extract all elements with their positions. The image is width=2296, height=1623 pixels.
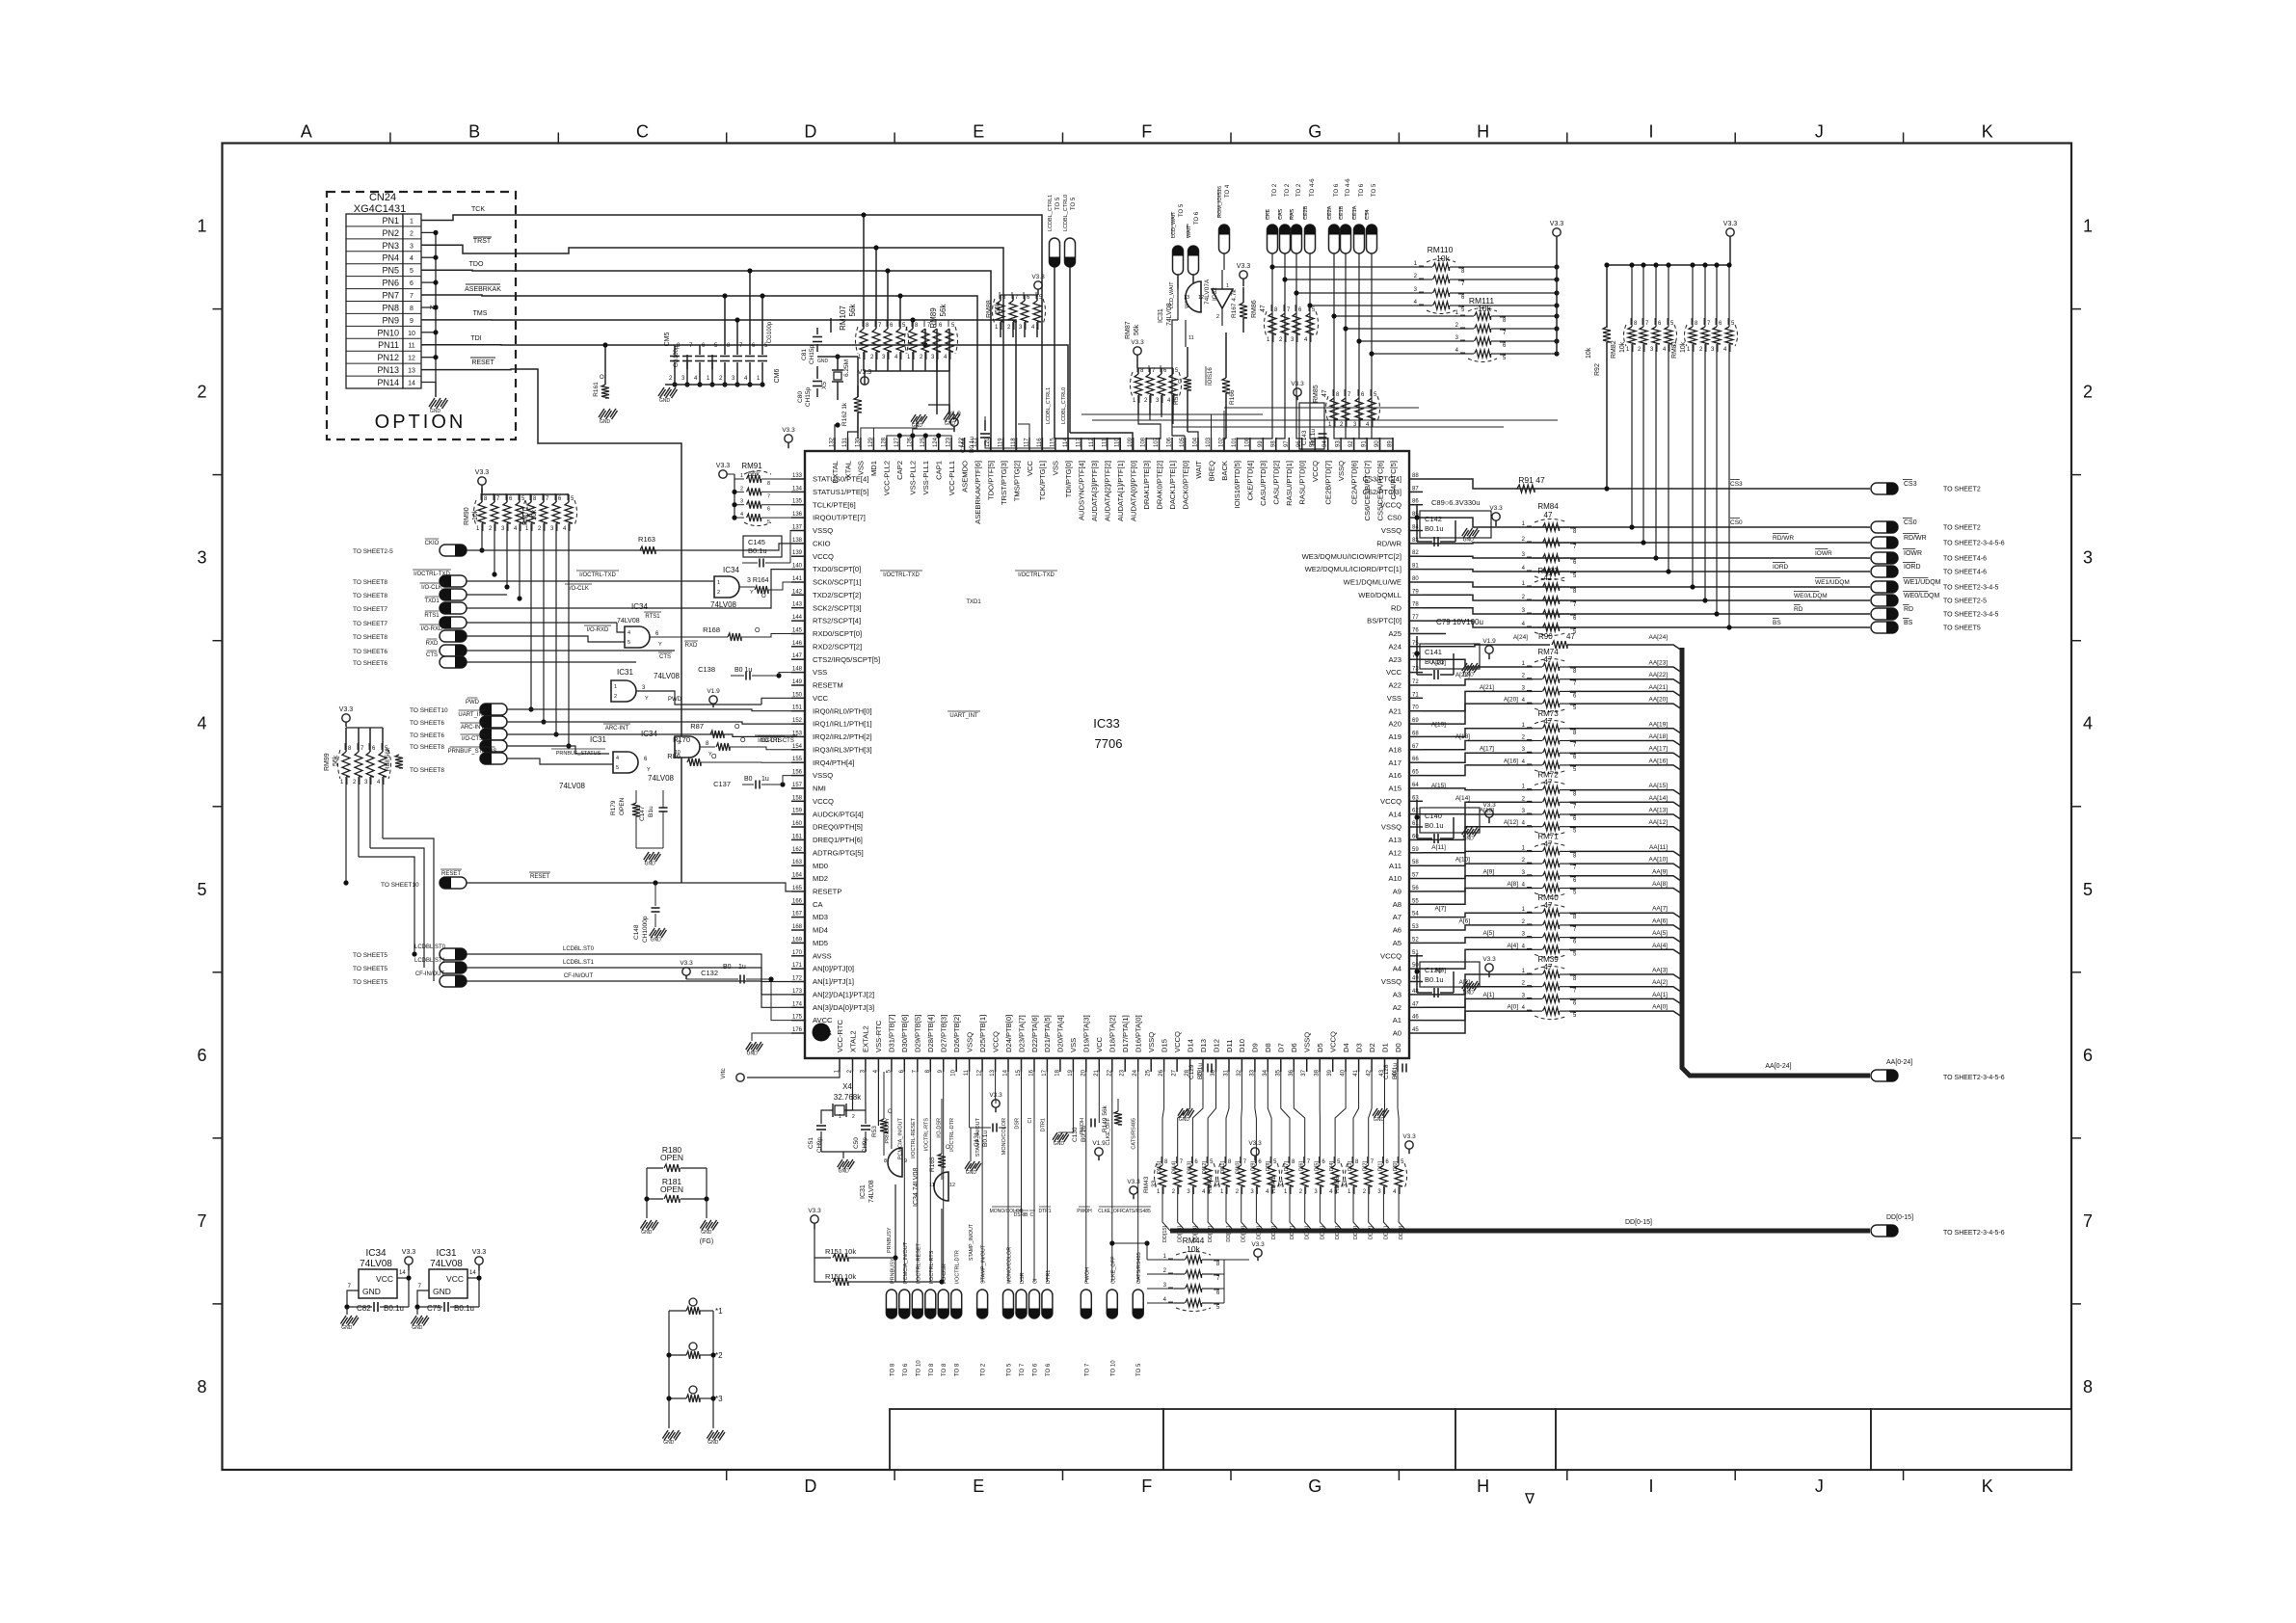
- svg-text:A11: A11: [1389, 862, 1402, 870]
- wire A9 to AA[9]: [1423, 876, 1533, 891]
- svg-text:Y: Y: [750, 590, 754, 596]
- svg-text:B0.1u: B0.1u: [1081, 1126, 1087, 1142]
- svg-text:5: 5: [410, 268, 414, 275]
- svg-text:AA[4]: AA[4]: [1652, 943, 1668, 949]
- svg-text:O: O: [755, 627, 761, 634]
- svg-text:151: 151: [792, 705, 803, 711]
- svg-text:LCDBL_CTRL1: LCDBL_CTRL1: [1048, 195, 1054, 231]
- wire to C144: [985, 445, 1055, 451]
- svg-text:V3.3: V3.3: [1248, 1140, 1262, 1147]
- svg-text:AVSS: AVSS: [813, 951, 832, 960]
- wire A7 to AA[7]: [1423, 913, 1533, 917]
- svg-text:C79 10V100u: C79 10V100u: [1436, 618, 1483, 626]
- terminal RD/WR: [1871, 537, 1898, 548]
- svg-text:74LV08: 74LV08: [617, 618, 640, 625]
- wire D1 to DD[1]: [1383, 1072, 1384, 1165]
- svg-text:63: 63: [1412, 795, 1419, 801]
- svg-text:PRNBUSY: PRNBUSY: [885, 1118, 891, 1144]
- labels WAIT BREQ BACK wires: [1211, 414, 1213, 451]
- svg-text:PRNBUSY: PRNBUSY: [887, 1227, 893, 1253]
- wire TCK from CN24: [421, 215, 1042, 451]
- svg-text:AUDATA[3]/PTF[3]: AUDATA[3]/PTF[3]: [1090, 461, 1099, 521]
- svg-text:D18/PTA[2]: D18/PTA[2]: [1108, 1015, 1117, 1052]
- svg-text:I/O-CLK: I/O-CLK: [568, 586, 589, 592]
- svg-text:152: 152: [792, 718, 803, 724]
- svg-text:IORD: IORD: [1773, 564, 1789, 571]
- terminal CE1A TO 6: [1354, 225, 1365, 253]
- svg-text:B0.1u: B0.1u: [1425, 524, 1444, 533]
- svg-text:47: 47: [1544, 511, 1553, 519]
- wire A8 to AA[8]: [1423, 889, 1533, 905]
- svg-text:138: 138: [792, 538, 803, 544]
- svg-text:A9: A9: [1393, 888, 1402, 896]
- svg-text:CG100p: CG100p: [767, 321, 773, 343]
- svg-text:D0: D0: [1394, 1043, 1402, 1052]
- svg-text:PN11: PN11: [378, 340, 399, 350]
- svg-text:TO SHEET8: TO SHEET8: [353, 634, 387, 641]
- svg-text:CATS/RS485: CATS/RS485: [1132, 1118, 1137, 1150]
- svg-text:AA[17]: AA[17]: [1648, 746, 1668, 753]
- svg-text:H: H: [1477, 122, 1489, 142]
- svg-text:59: 59: [1412, 847, 1419, 853]
- svg-text:CS0: CS0: [1904, 519, 1917, 526]
- svg-text:GND: GND: [412, 1325, 423, 1331]
- svg-text:TO SHEET5: TO SHEET5: [353, 966, 387, 972]
- svg-text:84: 84: [1412, 525, 1419, 531]
- VSS-RTC ground: [877, 1072, 879, 1126]
- svg-text:D31/PTB[7]: D31/PTB[7]: [888, 1015, 896, 1052]
- wire CKIO to pin 138: [467, 544, 791, 550]
- svg-text:RTS1: RTS1: [645, 614, 660, 620]
- svg-text:V1.9: V1.9: [948, 411, 961, 417]
- svg-text:X4: X4: [842, 1082, 852, 1091]
- svg-text:8: 8: [2083, 1377, 2093, 1397]
- svg-text:4: 4: [410, 255, 414, 262]
- svg-text:164: 164: [792, 873, 803, 879]
- terminal RAS TO 2: [1292, 225, 1302, 253]
- svg-text:VCCQ: VCCQ: [1173, 1031, 1182, 1052]
- svg-text:AUDATA[0]/PTF[0]: AUDATA[0]/PTF[0]: [1130, 461, 1138, 521]
- svg-text:TO SHEET2-3-4-5-6: TO SHEET2-3-4-5-6: [1943, 1075, 2005, 1081]
- svg-text:172: 172: [792, 976, 803, 982]
- wire A6 to AA[6]: [1423, 925, 1533, 930]
- svg-text:65: 65: [1412, 770, 1419, 776]
- svg-text:MD0: MD0: [813, 862, 828, 870]
- svg-text:R167 4.7k: R167 4.7k: [1231, 289, 1238, 318]
- svg-text:77: 77: [1412, 615, 1419, 621]
- wire CS0 to output: [1423, 518, 1870, 527]
- svg-text:5: 5: [2083, 880, 2093, 899]
- svg-text:166: 166: [792, 898, 803, 904]
- svg-text:86: 86: [1412, 499, 1419, 505]
- svg-text:A[16]: A[16]: [1504, 758, 1518, 764]
- svg-text:V3.3: V3.3: [1550, 221, 1564, 227]
- resistor R168 0: [650, 636, 728, 638]
- svg-text:RM90: RM90: [464, 507, 470, 525]
- svg-text:TO 2: TO 2: [981, 1363, 987, 1376]
- svg-text:18: 18: [1055, 1069, 1060, 1076]
- svg-text:D22/PTA[6]: D22/PTA[6]: [1030, 1015, 1039, 1052]
- svg-text:LCDBL_CTRL0: LCDBL_CTRL0: [1061, 387, 1067, 424]
- svg-text:A19: A19: [1388, 732, 1402, 741]
- svg-text:VCC: VCC: [1095, 1036, 1104, 1052]
- pull-up wire: [494, 523, 495, 574]
- svg-text:VCC-RTC: VCC-RTC: [836, 1019, 844, 1052]
- svg-text:IC31: IC31: [436, 1248, 457, 1259]
- svg-text:D[1]: D[1]: [1377, 1161, 1383, 1172]
- svg-text:DTR1: DTR1: [1040, 1118, 1046, 1131]
- svg-text:WE3/DQMUU/ICIOWR/PTC[2]: WE3/DQMUU/ICIOWR/PTC[2]: [1302, 552, 1402, 561]
- svg-text:AUDSYNC/PTF[4]: AUDSYNC/PTF[4]: [1078, 461, 1086, 520]
- svg-text:A23: A23: [1388, 655, 1402, 664]
- wire A25: [1423, 633, 1446, 635]
- svg-text:GND: GND: [1179, 1117, 1190, 1123]
- svg-text:B: B: [468, 122, 480, 142]
- svg-text:A2: A2: [1393, 1003, 1402, 1012]
- svg-text:TO 6: TO 6: [1334, 183, 1340, 197]
- svg-text:TO SHEET8: TO SHEET8: [410, 767, 444, 774]
- svg-text:V3.3: V3.3: [472, 1249, 487, 1256]
- svg-text:D7: D7: [1277, 1043, 1286, 1052]
- svg-text:45: 45: [1412, 1027, 1419, 1033]
- svg-text:V3.3: V3.3: [1237, 263, 1251, 270]
- svg-text:LCDBL_CTRL0: LCDBL_CTRL0: [1063, 195, 1069, 231]
- svg-text:D8: D8: [1264, 1043, 1272, 1052]
- svg-text:B0: B0: [723, 964, 732, 971]
- svg-text:10k: 10k: [1478, 304, 1491, 313]
- svg-text:V3.3: V3.3: [1127, 1179, 1140, 1185]
- svg-text:V1.9: V1.9: [707, 688, 720, 695]
- svg-text:Vrtc: Vrtc: [720, 1068, 727, 1079]
- svg-text:IC31: IC31: [590, 735, 606, 744]
- svg-text:CASU/PTD[3]: CASU/PTD[3]: [1259, 461, 1268, 506]
- svg-text:VCC: VCC: [813, 694, 829, 703]
- V1.9 supply left: [709, 696, 717, 704]
- svg-text:C148: C148: [633, 924, 640, 940]
- svg-text:TCK: TCK: [471, 206, 485, 213]
- svg-text:73: 73: [1412, 667, 1419, 673]
- svg-text:*1: *1: [715, 1307, 723, 1316]
- svg-text:J: J: [1815, 1477, 1824, 1496]
- svg-text:1: 1: [740, 473, 743, 479]
- svg-text:O: O: [711, 754, 717, 760]
- terminal CKE TO 2: [1268, 225, 1278, 253]
- svg-text:D11: D11: [1225, 1040, 1234, 1052]
- svg-text:72: 72: [1412, 679, 1419, 685]
- svg-text:70: 70: [1412, 705, 1419, 711]
- svg-text:D9: D9: [1251, 1043, 1260, 1052]
- wire D11 to DD[11]: [1226, 1072, 1229, 1165]
- svg-text:AA[5]: AA[5]: [1652, 930, 1668, 937]
- svg-text:9: 9: [410, 318, 414, 325]
- svg-text:∇: ∇: [1524, 1491, 1535, 1507]
- svg-text:3 R164: 3 R164: [747, 577, 769, 584]
- svg-text:VCC: VCC: [1386, 668, 1402, 677]
- svg-text:PN3: PN3: [382, 241, 399, 251]
- svg-text:87: 87: [1412, 486, 1419, 492]
- resistor R162 1k: [854, 397, 862, 412]
- svg-text:160: 160: [792, 821, 803, 827]
- svg-text:AUDATA[1]/PTF[1]: AUDATA[1]/PTF[1]: [1116, 461, 1125, 521]
- svg-text:IOWR: IOWR: [1815, 550, 1832, 557]
- wire bundle above IC top pins: [848, 412, 859, 451]
- IC33 bottom pins 1-44: [839, 1058, 841, 1072]
- svg-text:163: 163: [792, 860, 803, 865]
- svg-text:MD2: MD2: [813, 874, 828, 883]
- svg-text:143: 143: [792, 602, 803, 608]
- svg-text:TO 5: TO 5: [1372, 183, 1377, 197]
- svg-text:NMI: NMI: [813, 785, 826, 793]
- svg-text:D10: D10: [1238, 1039, 1246, 1052]
- svg-text:80: 80: [1412, 576, 1419, 582]
- svg-text:VSSQ: VSSQ: [1381, 823, 1402, 832]
- resistor network RM86 47: [1268, 313, 1276, 334]
- terminal CLKE_OFF TO 10: [1111, 1072, 1113, 1282]
- svg-text:2: 2: [614, 694, 617, 700]
- svg-text:TO SHEET2-3-4-5-6: TO SHEET2-3-4-5-6: [1943, 1230, 2005, 1237]
- svg-text:MD3: MD3: [813, 913, 828, 921]
- svg-text:10k: 10k: [1586, 347, 1592, 359]
- svg-text:171: 171: [792, 963, 803, 969]
- svg-text:AA[20]: AA[20]: [1648, 697, 1668, 704]
- wire D5 to DD[5]: [1319, 1072, 1321, 1165]
- pull-up wire: [555, 523, 557, 734]
- svg-text:LCDBL_CTRL1: LCDBL_CTRL1: [1046, 387, 1052, 424]
- svg-text:A[24]: A[24]: [1513, 634, 1528, 641]
- svg-text:GND: GND: [600, 419, 611, 425]
- svg-text:RM70: RM70: [522, 507, 529, 525]
- svg-text:X5: X5: [821, 382, 828, 389]
- svg-text:CH15p: CH15p: [805, 386, 812, 407]
- wire D3 to DD[3]: [1353, 1072, 1359, 1165]
- svg-text:52: 52: [1412, 937, 1419, 943]
- svg-text:11: 11: [1188, 335, 1194, 341]
- svg-text:SCK2/SCPT[3]: SCK2/SCPT[3]: [813, 603, 862, 612]
- svg-text:RESET: RESET: [441, 871, 461, 877]
- svg-text:BREQ: BREQ: [1207, 461, 1215, 482]
- svg-text:PCMCIA_IN/OUT: PCMCIA_IN/OUT: [897, 1117, 903, 1159]
- svg-text:TO 6: TO 6: [903, 1363, 909, 1376]
- svg-text:CTS: CTS: [426, 652, 438, 658]
- svg-text:A[22]: A[22]: [1455, 672, 1470, 678]
- AA bus terminal: [1871, 1070, 1898, 1081]
- svg-text:CI: CI: [1028, 1118, 1033, 1124]
- svg-text:157: 157: [792, 783, 803, 788]
- svg-text:F: F: [1141, 1477, 1152, 1496]
- resistor network RM84 47: [1533, 526, 1542, 528]
- svg-text:B0.1u: B0.1u: [454, 1304, 474, 1313]
- svg-text:R90: R90: [1538, 632, 1553, 641]
- svg-text:AA[24]: AA[24]: [1648, 634, 1668, 641]
- svg-text:MONO/COLOR: MONO/COLOR: [1001, 1118, 1007, 1155]
- svg-text:D29/PTB[5]: D29/PTB[5]: [914, 1015, 922, 1052]
- svg-text:WE2/DQMUL/ICIORD/PTC[1]: WE2/DQMUL/ICIORD/PTC[1]: [1305, 565, 1402, 573]
- svg-text:G: G: [1308, 1477, 1322, 1496]
- svg-text:14: 14: [399, 1270, 406, 1276]
- svg-text:62: 62: [1412, 809, 1419, 814]
- svg-text:AA[0]: AA[0]: [1652, 1004, 1668, 1011]
- VSS ground mid: [1053, 1132, 1057, 1140]
- terminal CS3: [1871, 483, 1898, 494]
- svg-text:CS6/CE1B/PTC[7]: CS6/CE1B/PTC[7]: [1363, 461, 1372, 520]
- svg-text:AA[12]: AA[12]: [1648, 819, 1668, 826]
- svg-text:RM99: RM99: [324, 753, 331, 771]
- svg-text:VSS: VSS: [857, 461, 866, 475]
- svg-text:CLKE_OFF: CLKE_OFF: [1110, 1256, 1116, 1284]
- svg-text:TO SHEET2-3-4-5: TO SHEET2-3-4-5: [1943, 612, 1999, 619]
- resistor network RM41 33: [1286, 1165, 1294, 1186]
- svg-text:49: 49: [1412, 976, 1419, 982]
- svg-text:RXD2/SCPT[2]: RXD2/SCPT[2]: [813, 642, 862, 651]
- svg-text:A[17]: A[17]: [1480, 746, 1494, 753]
- svg-text:74LV08: 74LV08: [654, 672, 681, 680]
- svg-text:GND: GND: [430, 409, 441, 414]
- svg-text:75: 75: [1412, 641, 1419, 647]
- svg-text:DACK0/PTE[0]: DACK0/PTE[0]: [1181, 461, 1189, 510]
- svg-text:TO 8: TO 8: [890, 1363, 895, 1376]
- svg-text:TO 6: TO 6: [1359, 183, 1365, 197]
- svg-text:TMS: TMS: [473, 310, 488, 317]
- svg-text:WE1/UDQM: WE1/UDQM: [1904, 579, 1941, 586]
- wire A24 through R90 47 to AA[24]: [1423, 645, 1550, 647]
- svg-text:74LV08: 74LV08: [360, 1259, 392, 1269]
- svg-text:R150 10k: R150 10k: [825, 1272, 856, 1281]
- IC33 pin 1 marker: [813, 1024, 831, 1042]
- capacitor C141 B0.1u block: [1420, 644, 1480, 669]
- svg-text:A[10]: A[10]: [1455, 857, 1470, 864]
- svg-text:AA[1]: AA[1]: [1652, 992, 1668, 998]
- svg-text:7: 7: [2083, 1211, 2093, 1231]
- svg-text:D[6]: D[6]: [1299, 1161, 1305, 1172]
- svg-text:GND: GND: [707, 1440, 719, 1446]
- svg-text:TO SHEET7: TO SHEET7: [353, 621, 387, 627]
- ground near C144: [944, 412, 948, 420]
- svg-text:PWOH: PWOH: [1077, 1209, 1092, 1214]
- svg-text:GND: GND: [663, 1440, 675, 1446]
- svg-text:A[2]: A[2]: [1458, 979, 1470, 986]
- V3.3 supply for RM arrays: [863, 352, 865, 371]
- svg-text:MONO/COLOR: MONO/COLOR: [1007, 1247, 1013, 1284]
- svg-text:I/OCTRL-CTS: I/OCTRL-CTS: [758, 738, 794, 744]
- svg-text:74LV08: 74LV08: [559, 782, 586, 790]
- svg-text:TO 8: TO 8: [929, 1363, 935, 1376]
- svg-text:1u: 1u: [761, 776, 769, 783]
- svg-text:33: 33: [1278, 1180, 1285, 1187]
- svg-text:ASEBRKAK/PTF[6]: ASEBRKAK/PTF[6]: [974, 461, 982, 524]
- svg-text:168: 168: [792, 924, 803, 930]
- V3.3 for bottom PTB lines: [992, 1100, 1000, 1107]
- pull-up wire: [481, 523, 483, 550]
- svg-text:CS3: CS3: [1730, 481, 1743, 488]
- resistor R163: [640, 546, 655, 554]
- wire I/OCTRL-TXD: [467, 580, 713, 582]
- wire WE1/UDQM to output: [1423, 582, 1870, 587]
- svg-text:145: 145: [792, 628, 803, 634]
- svg-text:GND: GND: [817, 359, 829, 364]
- DD bus terminal: [1871, 1225, 1898, 1237]
- svg-text:AA[3]: AA[3]: [1652, 968, 1668, 974]
- svg-text:13: 13: [408, 368, 415, 375]
- svg-text:TO 7: TO 7: [1084, 1363, 1090, 1376]
- svg-text:R53: R53: [871, 1126, 878, 1137]
- terminal CE2B TO 4-6: [1305, 225, 1316, 253]
- svg-text:6: 6: [2083, 1046, 2093, 1065]
- terminal I/O-DSR TO 8: [943, 1072, 945, 1282]
- svg-text:CI: CI: [1033, 1278, 1039, 1284]
- svg-text:D: D: [804, 1477, 816, 1496]
- svg-text:10k: 10k: [1187, 1244, 1200, 1254]
- svg-text:AUDCK/PTG[4]: AUDCK/PTG[4]: [813, 810, 864, 818]
- svg-text:C145: C145: [748, 538, 765, 546]
- wire CS3 to output: [1423, 479, 1870, 489]
- svg-text:A14: A14: [1388, 810, 1402, 818]
- svg-text:A[6]: A[6]: [1458, 918, 1470, 924]
- svg-text:C147: C147: [639, 806, 646, 821]
- svg-text:A5: A5: [1393, 939, 1402, 947]
- wire A4 to AA[4]: [1423, 949, 1533, 969]
- svg-text:173: 173: [792, 989, 803, 995]
- svg-text:147: 147: [792, 653, 803, 659]
- svg-text:5: 5: [616, 765, 619, 771]
- svg-text:ASEBRKAK: ASEBRKAK: [465, 286, 501, 293]
- svg-text:TXD0/SCPT[0]: TXD0/SCPT[0]: [813, 565, 861, 573]
- svg-text:TO SHEET8: TO SHEET8: [353, 579, 387, 586]
- V3.3 above IC: [785, 435, 792, 442]
- svg-text:O: O: [734, 724, 740, 731]
- resistor network RM111 10k: [1466, 315, 1474, 317]
- svg-text:TO 10: TO 10: [1110, 1360, 1116, 1376]
- V3.3 supply for D4 line: [1405, 1141, 1413, 1149]
- svg-text:CAP2: CAP2: [895, 461, 904, 480]
- svg-text:DD[12]: DD[12]: [1208, 1226, 1214, 1243]
- svg-text:56: 56: [1412, 886, 1419, 891]
- svg-text:4: 4: [740, 512, 743, 518]
- svg-text:IRQ0/IRL0/PTH[0]: IRQ0/IRL0/PTH[0]: [813, 706, 872, 715]
- svg-text:J: J: [1815, 122, 1824, 142]
- svg-text:56k: 56k: [333, 755, 339, 766]
- svg-text:D[15]: D[15]: [1157, 1161, 1162, 1175]
- svg-text:TO SHEET5: TO SHEET5: [1943, 625, 1981, 632]
- resistor network RM72 47: [1533, 789, 1542, 791]
- svg-text:154: 154: [792, 744, 803, 750]
- svg-text:B0: B0: [744, 776, 753, 783]
- svg-text:AA[6]: AA[6]: [1652, 918, 1668, 924]
- svg-text:TO SHEET4-6: TO SHEET4-6: [1943, 570, 1987, 576]
- wire A22 to AA[22]: [1423, 679, 1533, 685]
- svg-text:CATS/RS485: CATS/RS485: [1136, 1252, 1142, 1284]
- wire A17 to AA[17]: [1423, 753, 1533, 762]
- svg-text:A[5]: A[5]: [1482, 930, 1494, 937]
- svg-text:R168: R168: [703, 625, 720, 634]
- svg-text:DREQ0/PTH[5]: DREQ0/PTH[5]: [813, 823, 863, 832]
- svg-text:C81: C81: [801, 349, 808, 360]
- svg-text:7: 7: [767, 493, 770, 499]
- svg-text:TO 6: TO 6: [1194, 211, 1200, 225]
- wire D0 to DD[0]: [1398, 1072, 1399, 1165]
- resistor R91 47: [1517, 485, 1535, 492]
- svg-text:56k: 56k: [939, 304, 948, 317]
- svg-text:A3: A3: [1393, 991, 1402, 999]
- svg-text:A[1]: A[1]: [1482, 992, 1494, 998]
- svg-text:CH9p: CH9p: [816, 1137, 823, 1153]
- svg-text:VCCQ: VCCQ: [1329, 1031, 1338, 1052]
- svg-text:47: 47: [1322, 389, 1328, 397]
- svg-text:CM5: CM5: [664, 333, 671, 347]
- svg-text:AVSS: AVSS: [813, 1029, 832, 1038]
- svg-text:116: 116: [1037, 438, 1043, 447]
- svg-text:VCC-PLL1: VCC-PLL1: [948, 461, 956, 495]
- svg-text:AA[11]: AA[11]: [1649, 844, 1668, 851]
